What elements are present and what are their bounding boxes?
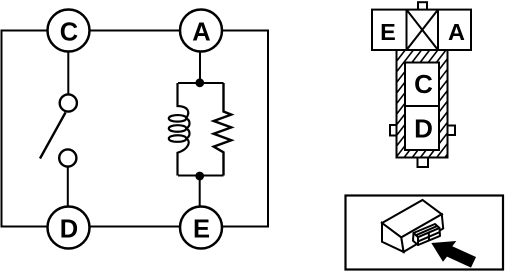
terminal E: [180, 207, 222, 249]
svg-text:D: D: [60, 216, 78, 244]
connector pinout bottom tab: [418, 157, 429, 167]
wire parallel branch rails: [178, 83, 224, 176]
svg-text:A: A: [448, 19, 465, 45]
connector pinout left tab: [390, 125, 398, 136]
terminal A: [180, 10, 222, 52]
resistor R1: [214, 83, 232, 176]
wire switch to D: [67, 167, 69, 207]
svg-text:E: E: [380, 19, 396, 45]
svg-text:D: D: [414, 114, 433, 144]
relay body front face: [401, 214, 443, 252]
arrow pointing to relay connector: [431, 241, 476, 268]
connector pinout row with cells E, keyway X, A: [372, 10, 471, 50]
node junction dot bottom: [195, 172, 204, 181]
wire node to E: [199, 176, 201, 207]
terminal C: [48, 10, 90, 52]
connector pinout right tab: [447, 126, 455, 136]
wire A to node: [199, 52, 201, 84]
wire outer loop rectangle: [2, 31, 269, 227]
terminal D: [48, 207, 90, 249]
connector pinout top tab: [418, 2, 427, 10]
coil L1: [169, 83, 190, 176]
relay body left face: [382, 223, 404, 252]
connector body hatched shell: [394, 0, 452, 275]
svg-text:C: C: [60, 19, 78, 47]
connector pin cell C: [405, 63, 439, 151]
relay location box frame: [346, 196, 504, 270]
relay body top face: [382, 200, 442, 237]
svg-text:A: A: [192, 19, 210, 47]
relay connector socket: [413, 224, 440, 245]
connector pin cell D: [405, 106, 439, 144]
wire C to switch: [67, 52, 69, 95]
svg-text:C: C: [414, 69, 433, 99]
node junction dot top: [195, 78, 204, 87]
svg-text:E: E: [193, 216, 210, 244]
switch S1: [40, 94, 77, 166]
